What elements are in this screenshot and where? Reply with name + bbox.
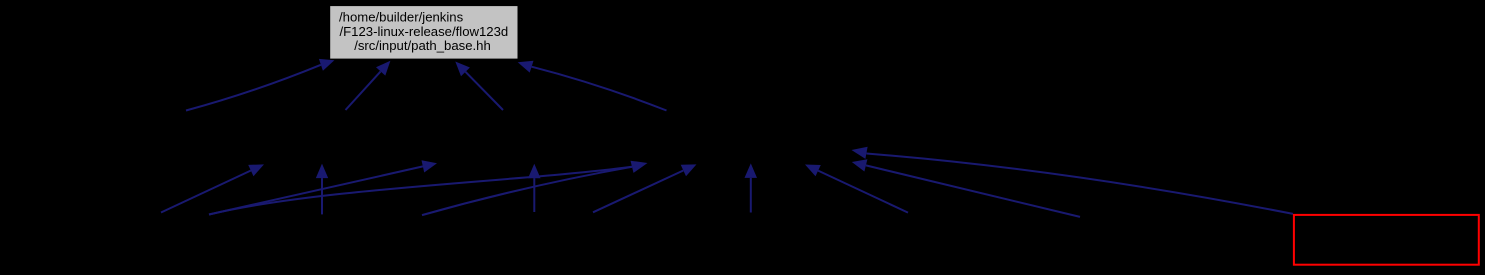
edge node3 to path_base.hh bbox=[346, 71, 381, 110]
edge node15 (red) to node5 (curved) bbox=[867, 154, 1294, 214]
edge node10 to node4 bbox=[533, 178, 535, 212]
edge node12 to node5 bbox=[750, 178, 752, 213]
svg-text:/home/builder/jenkins: /home/builder/jenkins bbox=[339, 10, 464, 25]
edge node14 to node5 bbox=[866, 165, 1080, 217]
edge node2 to path_base.hh bbox=[186, 65, 321, 111]
edge node6 to node2 bbox=[161, 171, 251, 213]
node15 highlighted with red border (hover) bbox=[1294, 215, 1479, 265]
edge node5 to path_base.hh bbox=[532, 67, 667, 111]
svg-text:/src/input/path_base.hh: /src/input/path_base.hh bbox=[354, 38, 491, 53]
edge node4 to path_base.hh bbox=[466, 72, 504, 110]
edge node8 to node4 (curved) bbox=[209, 167, 632, 215]
edge node9 to node4 (curved, merges into same arrowhead) bbox=[422, 167, 632, 215]
edge node13 to node5 bbox=[818, 171, 908, 213]
edge node7 to node3 bbox=[321, 178, 323, 214]
node1 path_base.hh (current node, gray fill) bbox=[330, 6, 517, 59]
edge node11 to node5 bbox=[593, 171, 683, 213]
edge node8 to node3 bbox=[209, 166, 423, 214]
svg-text:/F123-linux-release/flow123d: /F123-linux-release/flow123d bbox=[340, 24, 509, 39]
